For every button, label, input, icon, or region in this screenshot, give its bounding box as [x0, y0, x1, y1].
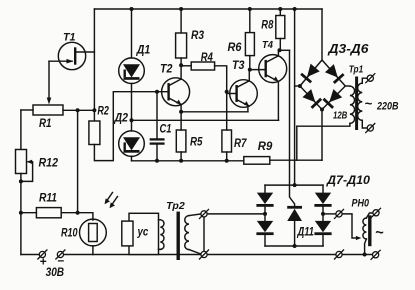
svg-text:Т3: Т3	[232, 60, 245, 72]
svg-text:R5: R5	[190, 136, 203, 148]
svg-text:Т2: Т2	[160, 63, 173, 75]
svg-text:С1: С1	[160, 123, 172, 135]
svg-text:~: ~	[365, 96, 373, 111]
svg-text:R6: R6	[228, 42, 243, 54]
svg-text:–: –	[58, 253, 65, 267]
svg-text:R12: R12	[39, 158, 59, 170]
svg-text:R11: R11	[39, 192, 57, 204]
svg-text:Т4: Т4	[262, 40, 273, 51]
svg-text:R4: R4	[201, 52, 213, 64]
svg-text:Д2: Д2	[114, 113, 129, 125]
svg-text:Д1: Д1	[136, 44, 150, 56]
svg-text:Тр2: Тр2	[166, 201, 185, 212]
svg-text:R9: R9	[258, 141, 273, 153]
svg-text:R10: R10	[61, 228, 78, 240]
svg-text:+: +	[40, 255, 47, 269]
svg-text:РН0: РН0	[352, 197, 370, 209]
svg-text:R3: R3	[191, 30, 205, 42]
svg-text:Т1: Т1	[63, 32, 76, 44]
svg-text:ус: ус	[137, 225, 149, 239]
svg-text:Тр1: Тр1	[349, 65, 364, 76]
svg-text:R2: R2	[97, 105, 109, 117]
svg-text:~: ~	[375, 225, 384, 241]
svg-text:R1: R1	[39, 118, 52, 130]
svg-text:12В: 12В	[333, 109, 348, 121]
svg-text:30В: 30В	[46, 267, 65, 279]
svg-text:Д11: Д11	[297, 227, 314, 239]
svg-text:Д3-Д6: Д3-Д6	[327, 42, 369, 56]
svg-text:220В: 220В	[376, 100, 398, 112]
svg-text:R8: R8	[261, 20, 273, 32]
svg-text:Д7-Д10: Д7-Д10	[326, 173, 370, 187]
svg-text:R7: R7	[234, 138, 247, 150]
